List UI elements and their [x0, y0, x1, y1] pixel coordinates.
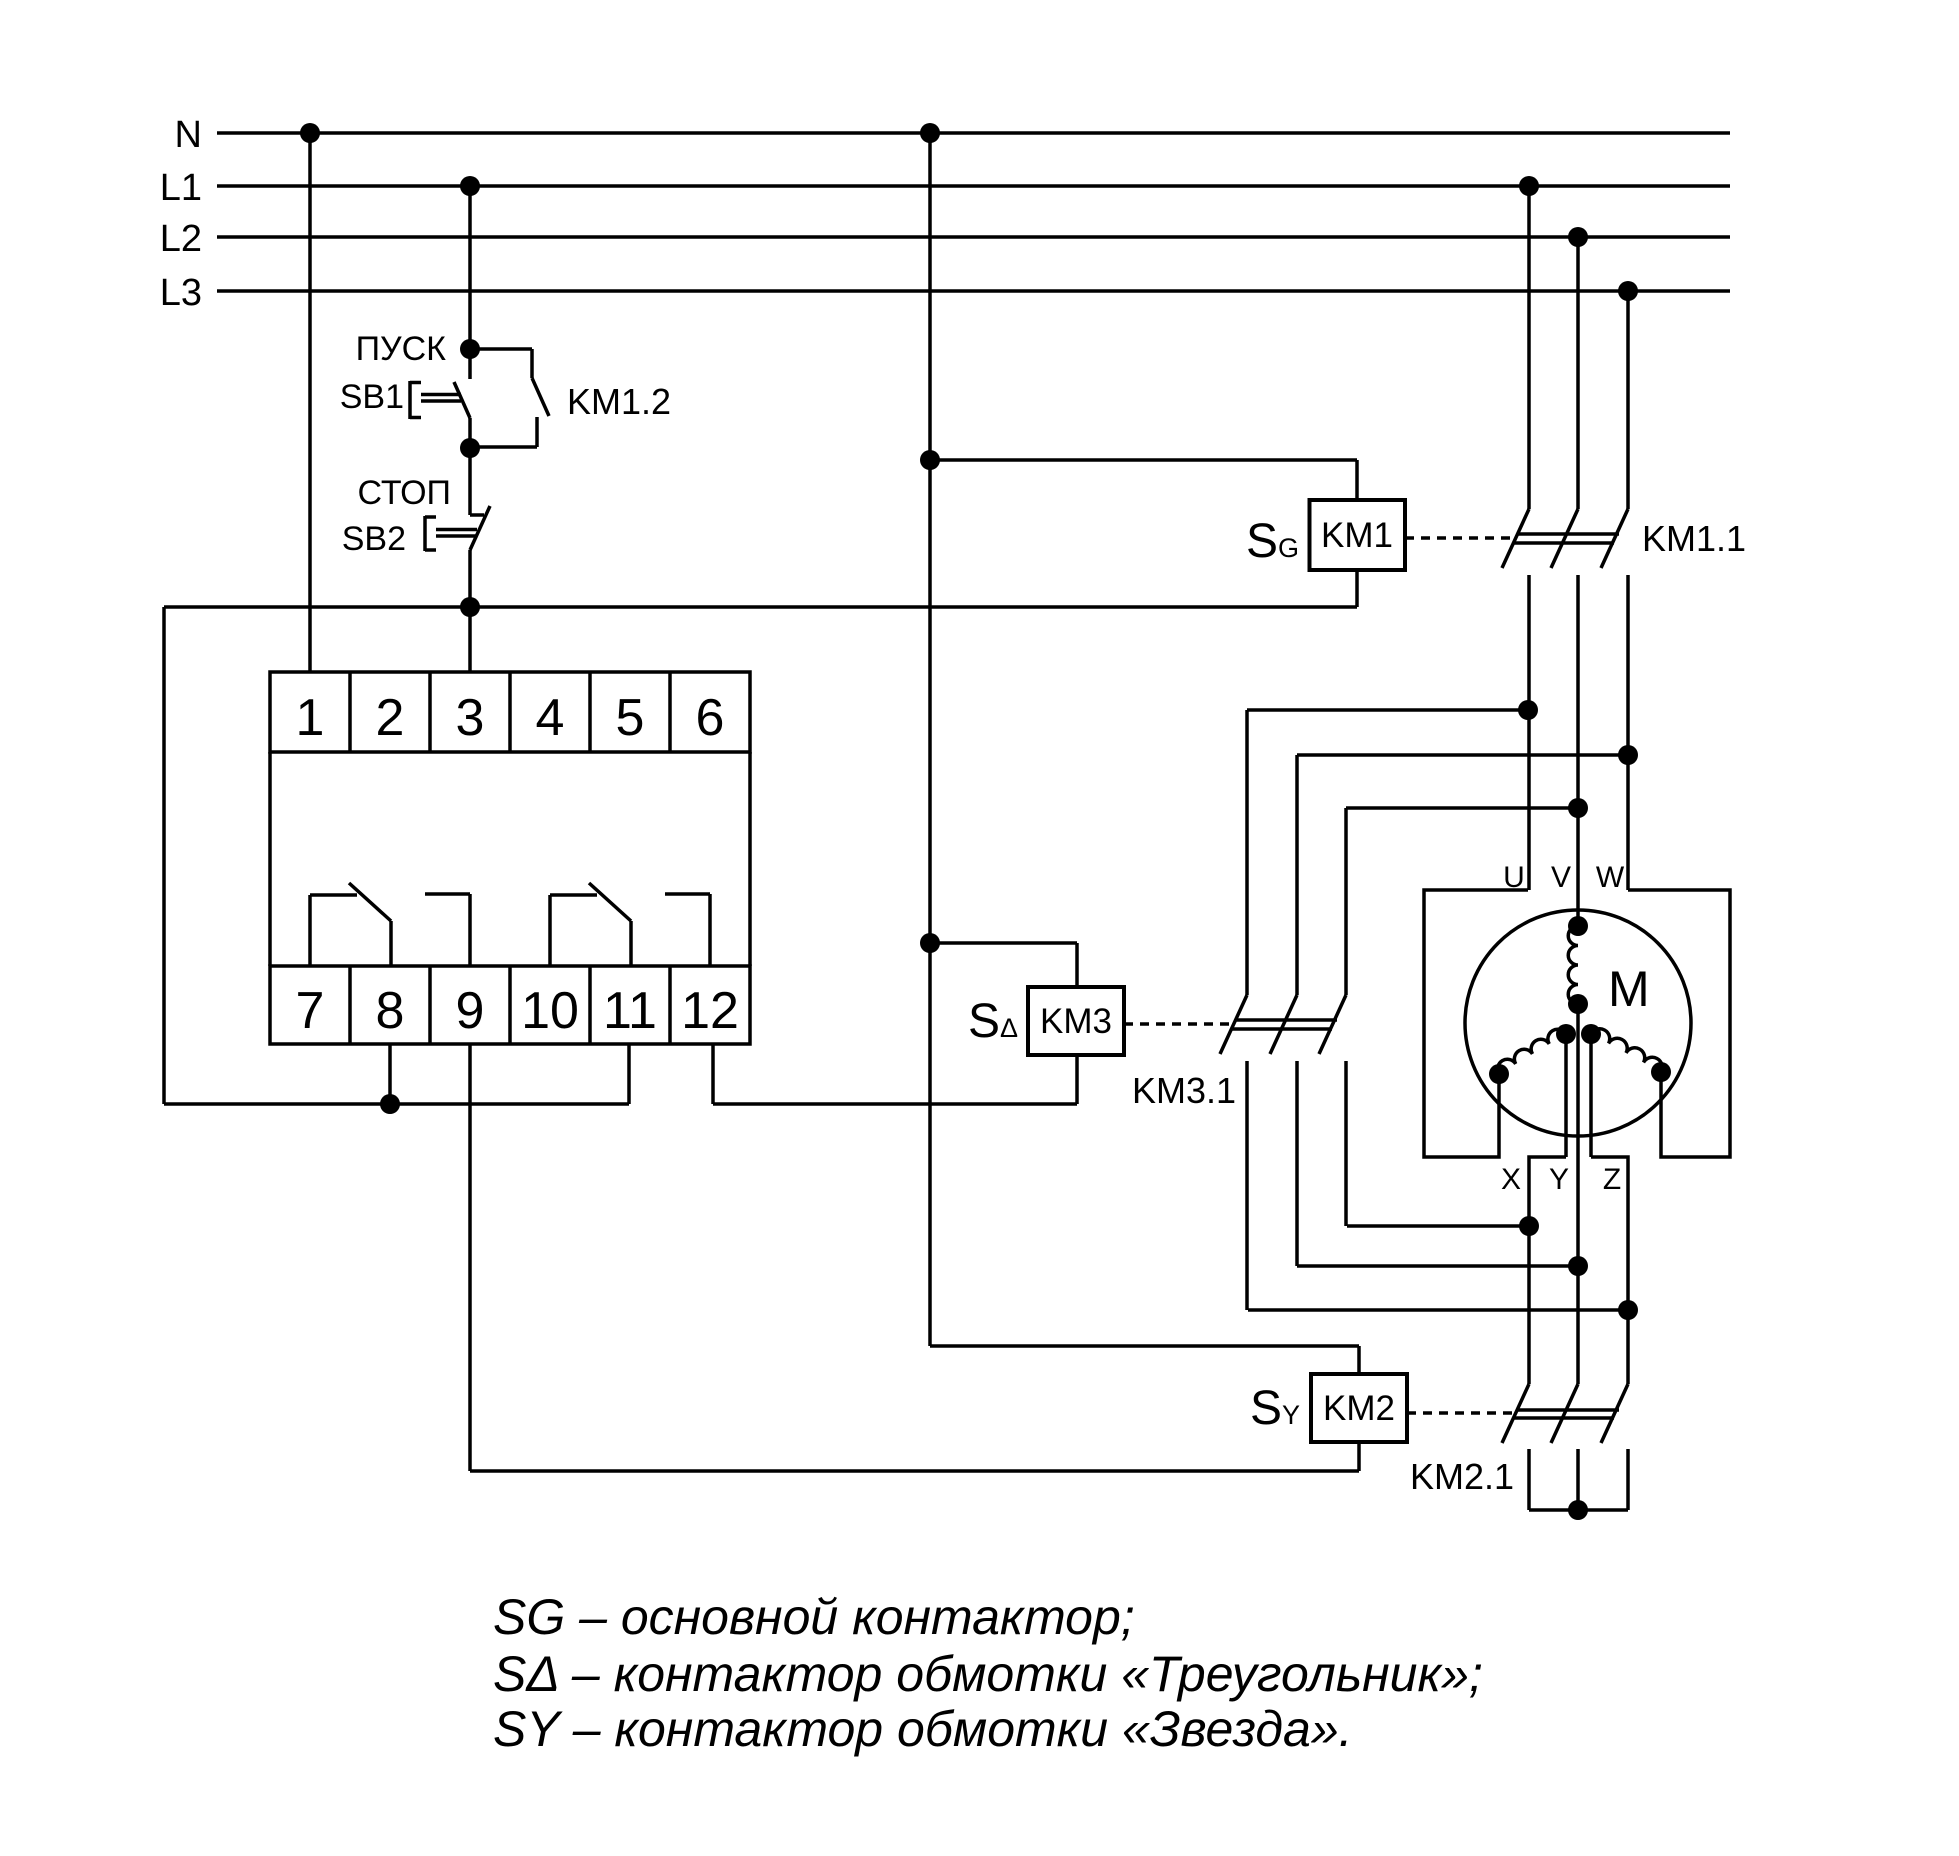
relay contact B (terminals 10-11-12) [548, 895, 552, 966]
wire V tap to KM3.1 [1346, 806, 1578, 810]
node coil V top [1568, 916, 1588, 936]
wire Y to KM3.1 [1297, 1264, 1578, 1268]
svg-text:4: 4 [536, 689, 565, 747]
wire KM1.2 node to SB2 [468, 448, 472, 515]
node terminal 8 [380, 1094, 400, 1114]
svg-text:ПУСК: ПУСК [356, 330, 447, 368]
wire KM3 coil bottom to terminal 12 [1075, 1055, 1079, 1104]
star point bar [1529, 1508, 1628, 1512]
contact KM1.1 pole 1 [1527, 186, 1531, 509]
KM1.1 linkage bar [1518, 532, 1619, 536]
svg-text:SB1: SB1 [340, 378, 404, 416]
winding lead X inner [1564, 1034, 1568, 1157]
svg-text:KM3.1: KM3.1 [1132, 1070, 1236, 1111]
contactor coil KM3 [1028, 987, 1124, 1055]
winding lead Y down [1576, 1004, 1580, 1266]
svg-text:W: W [1596, 861, 1625, 894]
winding V-Y coil [1568, 926, 1578, 1004]
wire SB2 to terminal 3 [468, 607, 472, 672]
terminal block body sides [268, 752, 272, 966]
svg-text:X: X [1501, 1163, 1521, 1196]
wire terminal 12 down [711, 1044, 715, 1104]
wire outer loop bottom [164, 1102, 629, 1106]
svg-text:8: 8 [376, 982, 405, 1040]
svg-text:SB2: SB2 [342, 520, 406, 558]
node U [1518, 700, 1538, 720]
svg-text:KM2.1: KM2.1 [1410, 1456, 1514, 1497]
contact KM1.1 pole 3 [1626, 291, 1630, 509]
svg-text:12: 12 [681, 982, 739, 1040]
motor enclosure W side [1628, 890, 1730, 1157]
node L3-KM1.1 [1618, 281, 1638, 301]
svg-text:1: 1 [296, 689, 325, 747]
SB2 actuator [423, 516, 427, 551]
svg-text:6: 6 [696, 689, 725, 747]
svg-text:Y: Y [1549, 1163, 1569, 1196]
node coil X end [1489, 1064, 1509, 1084]
wire common rail y607 [164, 605, 1357, 609]
node L1 [460, 176, 480, 196]
svg-text:L1: L1 [160, 167, 202, 209]
wire Z to KM3.1 [1248, 1308, 1628, 1312]
contactor coil KM1 [1310, 500, 1406, 570]
rail L3 [217, 289, 1730, 293]
node star point [1568, 1500, 1588, 1520]
pushbutton SB2 contact (NC) [470, 513, 484, 517]
contact KM2.1 pole 2 [1576, 1266, 1580, 1384]
svg-text:N: N [175, 114, 202, 156]
wire U tap to KM3.1 [1247, 708, 1528, 712]
svg-text:3: 3 [456, 689, 485, 747]
svg-text:SΔ – контактор обмотки «Треуго: SΔ – контактор обмотки «Треугольник»; [493, 1646, 1483, 1702]
winding lead Z inner [1589, 1034, 1593, 1157]
node coil X top [1556, 1024, 1576, 1044]
wire terminal 11 down [627, 1044, 631, 1104]
contact KM3.1 pole 1 [1220, 995, 1247, 1054]
dashed link KM3 [1124, 1022, 1231, 1026]
contact KM1.1 pole 2 [1576, 237, 1580, 509]
contact KM2.1 pole 1 [1527, 1226, 1531, 1384]
relay contact A (terminals 7-8-9) [308, 895, 312, 966]
motor circle [1465, 910, 1691, 1136]
wire terminal 8 down [388, 1044, 392, 1104]
wire outer loop left side [162, 607, 166, 1104]
terminal block top row [270, 672, 750, 752]
wire N to contactor feed column [928, 133, 932, 1346]
wire KM1 coil bottom [1355, 570, 1359, 607]
KM3.1 linkage bar [1236, 1018, 1337, 1022]
rail L2 [217, 235, 1730, 239]
svg-text:KM3: KM3 [1040, 1002, 1112, 1041]
node PUSK top [460, 339, 480, 359]
svg-text:2: 2 [376, 689, 405, 747]
svg-text:10: 10 [521, 982, 579, 1040]
rail N [217, 131, 1730, 135]
node V [1568, 798, 1588, 818]
svg-text:Z: Z [1603, 1163, 1621, 1196]
node coil V bottom [1568, 994, 1588, 1014]
svg-text:U: U [1503, 861, 1525, 894]
SB1 actuator [408, 381, 412, 419]
node PUSK bottom [460, 438, 480, 458]
wire N to terminal 1 [308, 133, 312, 672]
wire terminal 9 down to KM2 [468, 1044, 472, 1471]
svg-text:7: 7 [296, 982, 325, 1040]
terminal block bottom row [270, 966, 750, 1044]
wire L1 down to SB1 [468, 186, 472, 349]
contact KM3.1 pole 2 [1270, 995, 1297, 1054]
contact KM1.2 parallel branch [470, 347, 532, 351]
motor notch X [1529, 1157, 1566, 1226]
node KM3 feed [920, 933, 940, 953]
svg-text:L3: L3 [160, 272, 202, 314]
svg-text:9: 9 [456, 982, 485, 1040]
node Z [1618, 1300, 1638, 1320]
node Y [1568, 1256, 1588, 1276]
svg-text:KM2: KM2 [1323, 1389, 1395, 1428]
wire X to KM3.1 [1347, 1224, 1529, 1228]
svg-text:SG – основной контактор;: SG – основной контактор; [493, 1589, 1135, 1645]
svg-text:СТОП: СТОП [357, 474, 451, 512]
wire KM3 coil feed [930, 941, 1077, 945]
svg-text:V: V [1551, 861, 1571, 894]
node N-feed [920, 123, 940, 143]
node L1-KM1.1 [1519, 176, 1539, 196]
node coil Z top [1581, 1024, 1601, 1044]
svg-text:KM1: KM1 [1321, 516, 1393, 555]
wire W tap to KM3.1 [1297, 753, 1628, 757]
contact KM3.1 pole 3 [1319, 995, 1346, 1054]
node SB2 bottom [460, 597, 480, 617]
svg-text:11: 11 [603, 982, 657, 1040]
svg-text:KM1.2: KM1.2 [567, 381, 671, 422]
winding W-Z coil [1591, 1029, 1662, 1072]
rail L1 [217, 184, 1730, 188]
svg-text:L2: L2 [160, 218, 202, 260]
wire KM2 coil bottom [1357, 1442, 1361, 1471]
wire KM2 coil feed [930, 1344, 1359, 1348]
motor enclosure U side [1424, 890, 1528, 1157]
pushbutton SB1 contact [468, 349, 472, 379]
svg-text:KM1.1: KM1.1 [1642, 518, 1746, 559]
dashed link KM2 [1407, 1411, 1513, 1415]
node coil Z end [1651, 1062, 1671, 1082]
contact KM2.1 pole 3 [1626, 1310, 1630, 1384]
svg-text:5: 5 [616, 689, 645, 747]
wire KM1 coil feed [930, 458, 1357, 462]
node X [1519, 1216, 1539, 1236]
node W [1618, 745, 1638, 765]
svg-text:M: M [1608, 961, 1650, 1017]
contactor coil KM2 [1311, 1374, 1407, 1442]
dashed link KM1 [1405, 536, 1513, 540]
motor notch Z [1591, 1157, 1628, 1310]
node L2-KM1.1 [1568, 227, 1588, 247]
KM2.1 linkage bar [1518, 1408, 1619, 1412]
svg-text:SY – контактор обмотки «Звезда: SY – контактор обмотки «Звезда». [493, 1701, 1353, 1757]
node KM1 feed [920, 450, 940, 470]
winding U-X coil [1498, 1029, 1566, 1074]
node N-terminal1 [300, 123, 320, 143]
